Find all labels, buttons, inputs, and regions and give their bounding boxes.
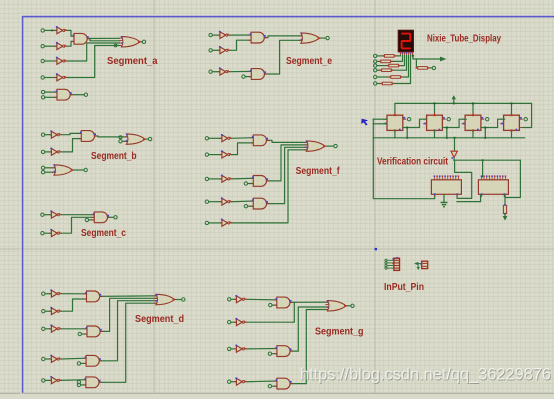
svg-text:https://blog.csdn.net/qq_36229: https://blog.csdn.net/qq_36229876 <box>300 365 551 384</box>
svg-text:Segment_d: Segment_d <box>135 314 184 325</box>
svg-text:Verification circuit: Verification circuit <box>377 156 449 167</box>
svg-text:Segment_e: Segment_e <box>286 56 332 67</box>
svg-text:Segment_f: Segment_f <box>296 166 341 177</box>
svg-text:Segment_c: Segment_c <box>81 228 126 239</box>
svg-text:Segment_a: Segment_a <box>107 56 158 67</box>
svg-text:Nixie_Tube_Display: Nixie_Tube_Display <box>427 33 501 44</box>
svg-text:Segment_b: Segment_b <box>91 151 137 162</box>
svg-text:InPut_Pin: InPut_Pin <box>384 282 424 293</box>
svg-text:Segment_g: Segment_g <box>315 326 364 337</box>
